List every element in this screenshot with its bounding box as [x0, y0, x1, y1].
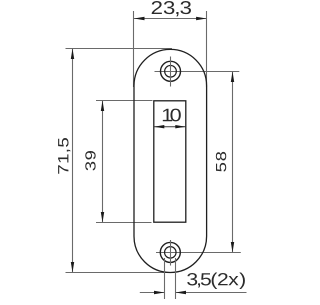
arrow 39 up — [101, 101, 104, 112]
dimension line 3,5 left segment — [140, 292, 165, 294]
arrow 71,5 up — [71, 49, 74, 60]
dimension line 39 — [102, 101, 104, 223]
extension line 58 top (hole centerline) — [155, 71, 240, 73]
arrow 10 left — [154, 125, 165, 128]
top hole vertical centerline — [170, 57, 172, 87]
arrow 3,5 pointing right — [154, 291, 165, 294]
dimension line 58 — [232, 72, 234, 253]
arrow 58 down — [231, 242, 234, 253]
dimension line 3,5 right segment — [176, 292, 247, 294]
slot (latch cutout) — [154, 101, 186, 222]
dimension line 71,5 — [72, 49, 74, 273]
arrow 71,5 down — [71, 262, 74, 273]
top screw hole inner circle — [165, 65, 177, 77]
arrow 39 down — [101, 212, 104, 223]
dimension text 10 — [163, 109, 181, 122]
arrow 3,5 pointing left — [176, 291, 187, 294]
extension line 3,5 left (hole tangent) — [164, 258, 166, 299]
dimension text 71,5 (rotated) — [58, 138, 70, 174]
extension line 3,5 right (hole tangent) — [175, 258, 177, 299]
bottom screw hole outer circle — [160, 242, 180, 262]
dimension text 39 (rotated) — [85, 151, 95, 171]
arrow 23,3 left — [134, 17, 145, 20]
arrow 23,3 right — [196, 17, 207, 20]
extension line 71,5 bottom — [66, 272, 173, 274]
top screw hole outer circle — [161, 61, 181, 81]
arrow 10 right — [175, 125, 186, 128]
extension line 39 top — [96, 100, 153, 102]
dimension text 3,5(2x) — [187, 273, 245, 289]
arrow 58 up — [231, 72, 234, 83]
dimension text 58 (rotated) — [216, 152, 226, 172]
bottom hole vertical centerline — [170, 240, 172, 266]
plate outline (stadium shape) — [134, 49, 207, 272]
bottom screw hole inner circle — [165, 247, 177, 259]
extension line 23,3 left (collinear with plate left edge) — [133, 11, 135, 87]
extension line 71,5 top — [66, 48, 173, 50]
extension line 23,3 right (collinear with plate right edge) — [206, 11, 208, 87]
dimension text 23,3 — [152, 1, 191, 16]
extension line 58 bottom (hole centerline) — [156, 252, 241, 254]
dimension line 23,3 — [134, 18, 207, 20]
extension line 39 bottom — [96, 222, 152, 224]
dimension line 10 — [154, 126, 186, 128]
